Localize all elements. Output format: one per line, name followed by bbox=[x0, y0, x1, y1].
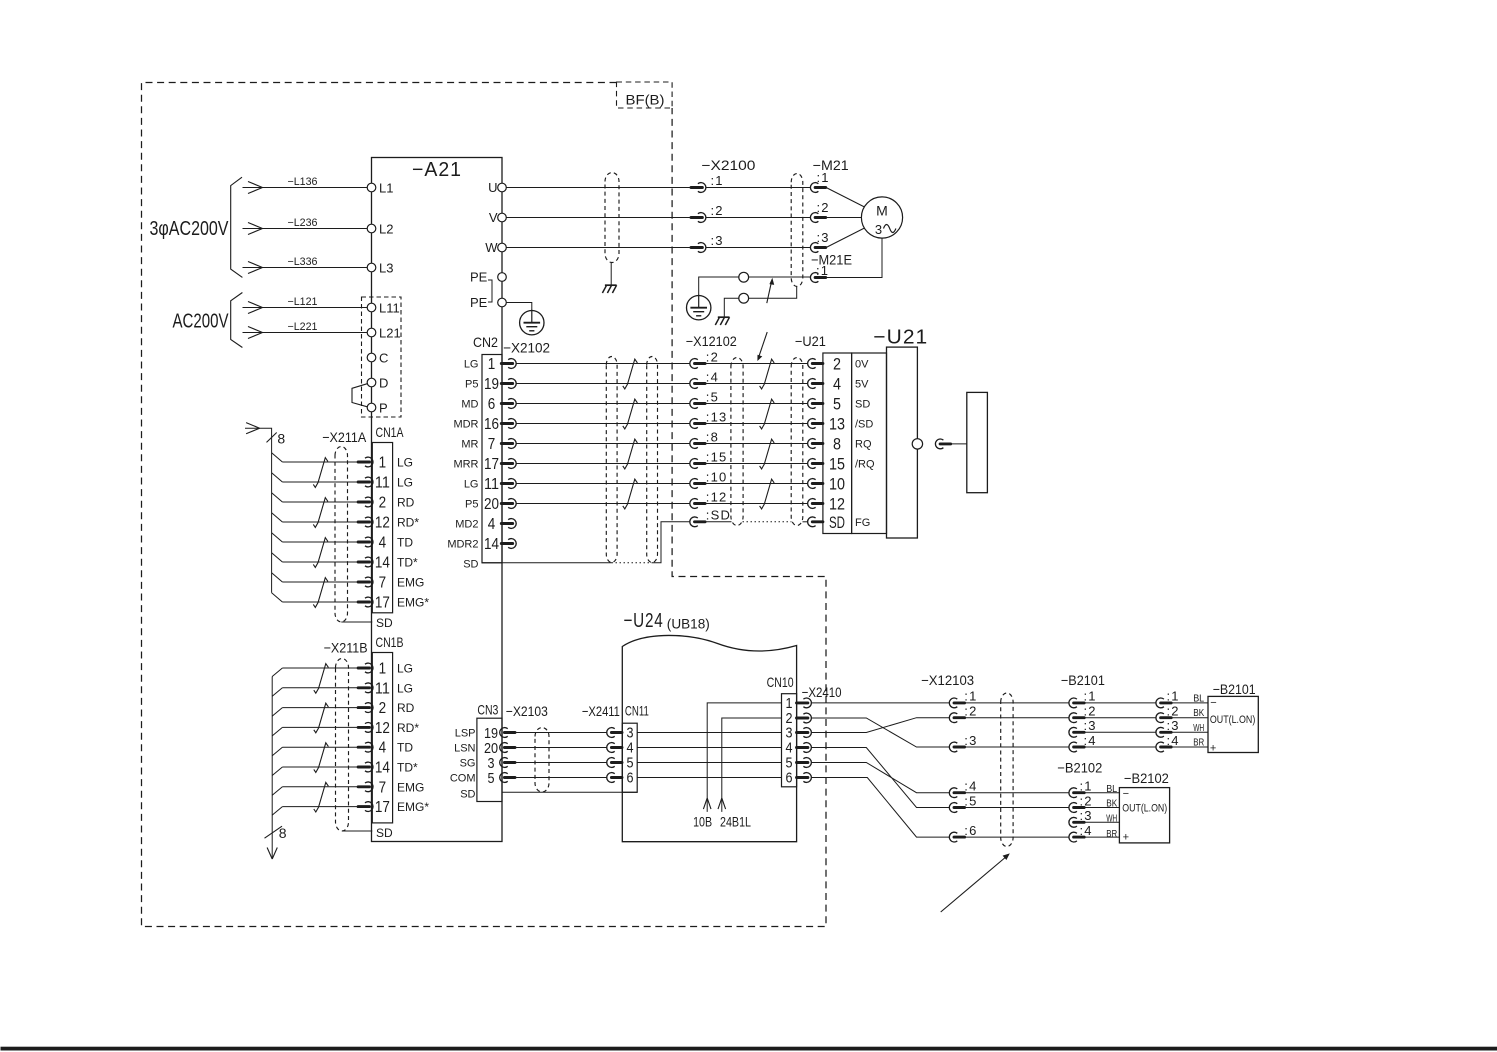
wire B2101 :1 bbox=[1085, 702, 1157, 704]
bus size 8 marker bbox=[267, 433, 277, 443]
wire CN1B row 6 bbox=[282, 766, 358, 768]
svg-text:MDR: MDR bbox=[453, 419, 478, 431]
svg-text:0V: 0V bbox=[855, 359, 869, 371]
bracket 3phase bbox=[231, 177, 243, 277]
wire B2101 :3 bbox=[1085, 731, 1157, 733]
connector B2101 cable pin :4 bbox=[1069, 742, 1077, 752]
svg-text:OUT(L.ON): OUT(L.ON) bbox=[1210, 714, 1255, 726]
svg-text::12: :12 bbox=[706, 489, 728, 504]
connector X12102 pin :8 bbox=[690, 439, 698, 449]
wire M21 pin2 to motor bbox=[826, 217, 861, 219]
svg-text:2: 2 bbox=[379, 495, 387, 512]
svg-text::2: :2 bbox=[1167, 704, 1180, 719]
net 10B feed bbox=[707, 703, 781, 812]
svg-text::1: :1 bbox=[1080, 779, 1093, 794]
svg-text:EMG: EMG bbox=[397, 780, 424, 794]
wire CN1B row 5 bbox=[282, 746, 358, 748]
svg-text:OUT(L.ON): OUT(L.ON) bbox=[1122, 803, 1167, 815]
connector X2411 pin bbox=[607, 773, 615, 783]
connector X12103 pin :6 bbox=[949, 832, 957, 842]
shield pointer arrow bbox=[767, 281, 772, 303]
servo amplifier A21 outline bbox=[372, 158, 503, 842]
svg-text:20: 20 bbox=[484, 496, 499, 513]
terminal PE bbox=[498, 298, 507, 307]
wire B2102 :1 bbox=[1085, 792, 1120, 794]
svg-text:LG: LG bbox=[397, 456, 413, 470]
svg-text::2: :2 bbox=[706, 349, 719, 364]
svg-text:12: 12 bbox=[829, 495, 845, 514]
svg-text:8: 8 bbox=[277, 430, 285, 446]
svg-text:14: 14 bbox=[484, 536, 499, 553]
connector B2102 cable pin :1 bbox=[1069, 788, 1077, 798]
svg-text:12: 12 bbox=[375, 515, 390, 532]
svg-text:−X12102: −X12102 bbox=[686, 333, 737, 349]
protective earth symbol (motor side) bbox=[687, 296, 711, 320]
wire −L236 supply input bbox=[243, 228, 368, 230]
svg-text:SD: SD bbox=[376, 616, 393, 630]
svg-text:TD: TD bbox=[397, 536, 413, 550]
connector B2101 unit pin :1 bbox=[1156, 698, 1164, 708]
svg-text::3: :3 bbox=[1084, 718, 1097, 733]
svg-text::3: :3 bbox=[1080, 808, 1093, 823]
svg-text:CN1B: CN1B bbox=[376, 634, 404, 650]
wire X12102 :8 to U21 bbox=[705, 443, 808, 445]
svg-text:6: 6 bbox=[488, 396, 496, 413]
wire chassis ground to cable shield bbox=[724, 287, 796, 317]
svg-text:MD2: MD2 bbox=[455, 519, 478, 531]
svg-text:11: 11 bbox=[375, 680, 390, 697]
svg-text:RD*: RD* bbox=[397, 721, 419, 735]
svg-text:−A21: −A21 bbox=[412, 159, 462, 181]
wire CN1A row 4 bbox=[282, 521, 358, 523]
wire CN10-1 to X12103-1 bbox=[811, 702, 950, 704]
svg-text:24B1L: 24B1L bbox=[720, 813, 751, 829]
svg-text::6: :6 bbox=[964, 823, 977, 838]
svg-text::13: :13 bbox=[706, 409, 728, 424]
svg-text::8: :8 bbox=[706, 429, 719, 444]
svg-text::SD: :SD bbox=[706, 508, 731, 523]
wire X12103 :3 onward bbox=[965, 746, 1069, 748]
svg-text:LG: LG bbox=[397, 476, 413, 490]
wire CN1B row 1 bbox=[282, 667, 358, 669]
CN1A harness bus bbox=[245, 428, 272, 593]
connector M21 pin :1 bbox=[810, 183, 818, 193]
svg-text:5V: 5V bbox=[855, 379, 869, 391]
svg-text::1: :1 bbox=[1167, 689, 1180, 704]
wire CN1B row 3 bbox=[282, 707, 358, 709]
motor cable shield (screen) left bbox=[605, 173, 619, 263]
svg-text:EMG*: EMG* bbox=[397, 800, 429, 814]
svg-text::1: :1 bbox=[711, 173, 724, 188]
svg-text:12: 12 bbox=[375, 720, 390, 737]
svg-text:−L236: −L236 bbox=[288, 217, 318, 229]
wire CN10-4 to X12103-5 bbox=[811, 748, 950, 808]
connector B2101 cable pin :3 bbox=[1069, 727, 1077, 737]
wire X12102 :13 to U21 bbox=[705, 423, 808, 425]
svg-text:D: D bbox=[379, 376, 388, 391]
svg-text:U: U bbox=[488, 180, 497, 195]
svg-text:LG: LG bbox=[464, 479, 479, 491]
wire phase :2 A21 to X2100 bbox=[506, 217, 691, 219]
wire X12102 :12 to U21 bbox=[705, 503, 808, 505]
terminal D bbox=[367, 378, 376, 387]
svg-text:−L336: −L336 bbox=[288, 256, 318, 268]
U21 pin SD FG bbox=[808, 517, 816, 527]
net 24B1L feed bbox=[722, 718, 782, 812]
svg-text:15: 15 bbox=[829, 455, 845, 474]
connector X12103 pin :2 bbox=[949, 713, 957, 723]
svg-text::5: :5 bbox=[706, 389, 719, 404]
svg-text:−X2411: −X2411 bbox=[582, 703, 620, 719]
svg-text:17: 17 bbox=[484, 456, 499, 473]
svg-text:8: 8 bbox=[833, 435, 841, 454]
terminal U bbox=[498, 183, 507, 192]
U21 pin 13 /SD bbox=[808, 419, 816, 429]
dashed enclosure boundary BF(B) bbox=[142, 83, 827, 927]
connector B2102 cable pin :2 bbox=[1069, 803, 1077, 813]
cable shield X211B bbox=[336, 659, 349, 832]
connector B2101 unit pin :4 bbox=[1156, 742, 1164, 752]
svg-text:BK: BK bbox=[1193, 708, 1204, 719]
svg-text:+: + bbox=[1210, 742, 1216, 754]
wire B2102 :4 bbox=[1085, 836, 1120, 838]
svg-text:−L121: −L121 bbox=[288, 296, 318, 308]
connector M21 pin :2 bbox=[810, 213, 818, 223]
wire to encoder connector bbox=[951, 443, 967, 445]
wire X12103 :1 onward bbox=[965, 702, 1069, 704]
wire CN11 to CN10 row 3 bbox=[637, 732, 781, 734]
svg-text:−L221: −L221 bbox=[288, 321, 318, 333]
svg-text::1: :1 bbox=[817, 170, 830, 185]
wire CN10-2 to X12103-3 bbox=[811, 718, 950, 747]
wire X12102 :5 to U21 bbox=[705, 403, 808, 405]
terminal L2 bbox=[367, 224, 376, 233]
cable shield ovals X12102-U21 bbox=[731, 358, 743, 526]
svg-text:−: − bbox=[1123, 788, 1129, 800]
svg-text:MR: MR bbox=[461, 439, 478, 451]
svg-text:BL: BL bbox=[1193, 693, 1204, 704]
svg-text:EMG: EMG bbox=[397, 576, 424, 590]
motor M21 3-phase bbox=[861, 197, 902, 238]
SD drain X211B bbox=[342, 830, 372, 832]
wire phase :3 A21 to X2100 bbox=[506, 247, 691, 249]
wire PE to protective earth bbox=[506, 303, 532, 312]
cable shield X12103 bbox=[1001, 693, 1013, 847]
svg-text:−: − bbox=[1210, 697, 1216, 709]
connector pin at U21 output bbox=[935, 439, 943, 449]
wire phase :1 A21 to X2100 bbox=[506, 187, 691, 189]
svg-text:8: 8 bbox=[279, 825, 287, 841]
wire −L221 supply input bbox=[243, 332, 368, 334]
SD drain X211A bbox=[341, 621, 372, 623]
svg-text:LSP: LSP bbox=[455, 728, 476, 740]
wire CN11 to CN10 row 4 bbox=[637, 747, 781, 749]
svg-text::3: :3 bbox=[817, 230, 830, 245]
U21 pin 15 /RQ bbox=[808, 459, 816, 469]
wire CN3 to X2411 row 19 bbox=[515, 732, 607, 734]
svg-text:C: C bbox=[379, 351, 388, 366]
svg-text::2: :2 bbox=[1080, 793, 1093, 808]
svg-text:−U21: −U21 bbox=[795, 333, 826, 349]
wire X12103 :2 onward bbox=[965, 717, 1069, 719]
wire B2102 :3 bbox=[1085, 821, 1120, 823]
svg-text:LG: LG bbox=[397, 662, 413, 676]
svg-text:RQ: RQ bbox=[855, 439, 872, 451]
svg-text:3φAC200V: 3φAC200V bbox=[150, 218, 230, 240]
wire B2101 :2 bbox=[1085, 717, 1157, 719]
twisted pair marks CN2 cable bbox=[623, 359, 638, 389]
connector M21 pin :3 bbox=[810, 243, 818, 253]
svg-text:17: 17 bbox=[375, 595, 390, 612]
terminal P bbox=[367, 403, 376, 412]
SD drain X12102 to U21 bbox=[705, 521, 731, 523]
svg-text:7: 7 bbox=[488, 436, 496, 453]
svg-text:7: 7 bbox=[379, 779, 387, 796]
connector CN10 box bbox=[782, 694, 797, 787]
svg-text::5: :5 bbox=[964, 793, 977, 808]
svg-text:−X2100: −X2100 bbox=[701, 157, 755, 173]
svg-text:BR: BR bbox=[1106, 829, 1117, 840]
terminal V bbox=[498, 213, 507, 222]
wire −L136 supply input bbox=[243, 187, 368, 189]
svg-text:SD: SD bbox=[855, 399, 870, 411]
cable shield X2103 bbox=[535, 728, 549, 793]
connector X12102 pin :2 bbox=[690, 359, 698, 369]
svg-text:TD: TD bbox=[397, 741, 413, 755]
svg-text:P5: P5 bbox=[465, 499, 478, 511]
wire CN2 11 to X12102 bbox=[516, 483, 690, 485]
connector B2101 cable pin :1 bbox=[1069, 698, 1077, 708]
svg-text:13: 13 bbox=[829, 415, 845, 434]
svg-text::4: :4 bbox=[964, 779, 977, 794]
svg-text:BK: BK bbox=[1106, 798, 1117, 809]
U21 body bbox=[887, 347, 918, 538]
svg-text::4: :4 bbox=[1080, 823, 1093, 838]
connector X12102 pin :SD bbox=[690, 517, 698, 527]
svg-text:P: P bbox=[379, 401, 388, 416]
svg-text:RD: RD bbox=[397, 701, 415, 715]
unit B2101 box bbox=[1208, 696, 1258, 752]
D-P jumper link bbox=[352, 384, 367, 407]
svg-text:BL: BL bbox=[1106, 784, 1117, 795]
chassis ground (shield side) bbox=[718, 316, 730, 318]
svg-text:19: 19 bbox=[484, 376, 499, 393]
svg-text:W: W bbox=[485, 240, 498, 255]
svg-text:−X2102: −X2102 bbox=[503, 339, 550, 355]
wire X12102 :10 to U21 bbox=[705, 483, 808, 485]
bracket AC200V bbox=[231, 293, 243, 348]
connector CN1B box bbox=[372, 653, 392, 823]
svg-text:4: 4 bbox=[379, 535, 387, 552]
wire X12102 :15 to U21 bbox=[705, 463, 808, 465]
cable shield ovals CN2-X12102 bbox=[606, 357, 617, 563]
svg-text:1: 1 bbox=[488, 356, 496, 373]
wire phase :1 X2100 to M21 bbox=[706, 187, 811, 189]
connector X2411 pin bbox=[607, 728, 615, 738]
svg-text:SD: SD bbox=[463, 559, 478, 571]
wire CN2 17 to X12102 bbox=[516, 463, 690, 465]
wire M21 pin1 to motor bbox=[826, 188, 864, 208]
wire phase :2 X2100 to M21 bbox=[706, 217, 811, 219]
svg-text::10: :10 bbox=[706, 469, 728, 484]
svg-text::2: :2 bbox=[1084, 704, 1097, 719]
terminal L1 bbox=[367, 183, 376, 192]
connector B2101 unit pin :3 bbox=[1156, 727, 1164, 737]
U21 pin 5 SD bbox=[808, 399, 816, 409]
wire X12102 :2 to U21 bbox=[705, 363, 808, 365]
U21 pin 4 5V bbox=[808, 379, 816, 389]
U21 pin 2 0V bbox=[808, 359, 816, 369]
U21 pin box bbox=[823, 353, 852, 534]
shield SD route CN2 to X12102 bbox=[482, 562, 612, 564]
wire phase :3 X2100 to M21 bbox=[706, 247, 811, 249]
connector X12103 pin :3 bbox=[949, 742, 957, 752]
unit U24 outline (wavy top) bbox=[622, 635, 796, 841]
PE terminal bracket bbox=[488, 280, 492, 302]
svg-text:TD*: TD* bbox=[397, 556, 418, 570]
svg-text:RD: RD bbox=[397, 496, 415, 510]
connector CN11 box bbox=[622, 723, 637, 792]
connector B2102 cable pin :3 bbox=[1069, 817, 1077, 827]
wire −L336 supply input bbox=[243, 267, 368, 269]
wire CN1A row 7 bbox=[282, 581, 358, 583]
unit B2102 box bbox=[1119, 788, 1169, 843]
terminal L3 bbox=[367, 263, 376, 272]
svg-text:PE: PE bbox=[470, 270, 488, 285]
svg-text:−X12103: −X12103 bbox=[921, 672, 974, 688]
connector M21E pin :1 bbox=[810, 273, 818, 283]
svg-text:−B2101: −B2101 bbox=[1213, 681, 1256, 697]
svg-text:CN11: CN11 bbox=[625, 703, 649, 719]
chassis ground (motor cable) bbox=[605, 284, 617, 286]
svg-text:10B: 10B bbox=[693, 813, 712, 829]
svg-text:6: 6 bbox=[627, 770, 634, 787]
connector X2100 pin :3 bbox=[698, 243, 706, 253]
wire CN2 6 to X12102 bbox=[516, 403, 690, 405]
wire CN10-6 to X12103-6 bbox=[811, 778, 950, 838]
connector CN1A box bbox=[372, 443, 392, 613]
protective earth symbol (A21) bbox=[520, 311, 544, 335]
wire CN1A row 3 bbox=[282, 501, 358, 503]
svg-text:BF(B): BF(B) bbox=[626, 92, 665, 108]
wire X12103 :6 onward bbox=[965, 836, 1069, 838]
svg-text:6: 6 bbox=[786, 770, 793, 787]
svg-text:11: 11 bbox=[484, 476, 499, 493]
connector X12102 pin :13 bbox=[690, 419, 698, 429]
shield pointer arrow X12102 bbox=[759, 332, 767, 357]
svg-text::4: :4 bbox=[1167, 733, 1180, 748]
svg-text::2: :2 bbox=[711, 203, 724, 218]
svg-text:SD: SD bbox=[829, 513, 845, 532]
svg-text:L2: L2 bbox=[379, 222, 393, 237]
wire CN1A row 1 bbox=[282, 461, 358, 463]
wire CN1A row 6 bbox=[282, 561, 358, 563]
svg-text:−B2102: −B2102 bbox=[1124, 770, 1169, 786]
wire CN1A row 8 bbox=[282, 601, 358, 603]
wire CN10-3 to X12103-2 bbox=[811, 718, 950, 733]
svg-text:5: 5 bbox=[833, 395, 841, 414]
svg-text:MDR2: MDR2 bbox=[447, 539, 478, 551]
connector X12102 pin :10 bbox=[690, 479, 698, 489]
connector X12103 pin :5 bbox=[949, 803, 957, 813]
connector B2102 cable pin :4 bbox=[1069, 832, 1077, 842]
wire CN2 1 to X12102 bbox=[516, 363, 690, 365]
connector X2411 pin bbox=[607, 758, 615, 768]
svg-text:CN10: CN10 bbox=[767, 674, 794, 690]
wire X12103 :5 onward bbox=[965, 807, 1069, 809]
svg-text::15: :15 bbox=[706, 449, 728, 464]
twisted pair marks X12102 cable bbox=[760, 359, 775, 389]
svg-text::3: :3 bbox=[711, 233, 724, 248]
connector CN3 box bbox=[477, 718, 502, 801]
dashed box around L11..P terminals bbox=[362, 297, 402, 417]
svg-text:EMG*: EMG* bbox=[397, 596, 429, 610]
svg-text:4: 4 bbox=[833, 375, 841, 394]
svg-text:−X211A: −X211A bbox=[322, 429, 367, 445]
bus size 8 marker bbox=[265, 826, 283, 838]
wire −L121 supply input bbox=[243, 307, 368, 309]
terminal L11 bbox=[367, 303, 376, 312]
wire CN1A row 5 bbox=[282, 541, 358, 543]
svg-text:L3: L3 bbox=[379, 261, 393, 276]
svg-text:L21: L21 bbox=[379, 326, 401, 341]
svg-text:1: 1 bbox=[379, 455, 387, 472]
svg-text:11: 11 bbox=[375, 475, 390, 492]
motor cable shield (screen) right bbox=[791, 174, 803, 287]
svg-text:CN1A: CN1A bbox=[376, 424, 404, 440]
wire CN1B row 4 bbox=[282, 726, 358, 728]
wire CN1B row 2 bbox=[282, 687, 358, 689]
svg-text:14: 14 bbox=[375, 555, 390, 572]
svg-text:−U24: −U24 bbox=[624, 610, 664, 632]
SD line CN3 to CN11 bbox=[502, 791, 637, 793]
svg-text:SD: SD bbox=[460, 789, 475, 801]
connector X2100 pin :2 bbox=[698, 213, 706, 223]
terminal PE bbox=[498, 273, 507, 282]
wire CN11 to CN10 row 5 bbox=[637, 762, 781, 764]
svg-text:BR: BR bbox=[1193, 738, 1204, 749]
svg-text:−U21: −U21 bbox=[873, 327, 928, 349]
svg-text::3: :3 bbox=[964, 733, 977, 748]
wire M21 pin3 to motor bbox=[826, 228, 864, 248]
svg-text:WH: WH bbox=[1106, 814, 1117, 825]
svg-text:−X2103: −X2103 bbox=[506, 703, 548, 719]
svg-text:TD*: TD* bbox=[397, 761, 418, 775]
shield drain to chassis ground bbox=[610, 263, 612, 286]
terminal W bbox=[498, 243, 507, 252]
svg-text:2: 2 bbox=[833, 355, 841, 374]
BF(B) label box bbox=[617, 82, 673, 108]
svg-text:V: V bbox=[489, 210, 498, 225]
connector X12102 pin :5 bbox=[690, 399, 698, 409]
svg-text:17: 17 bbox=[375, 799, 390, 816]
wire CN1B row 7 bbox=[282, 786, 358, 788]
svg-text:7: 7 bbox=[379, 575, 387, 592]
svg-text:WH: WH bbox=[1193, 723, 1204, 734]
encoder connector block bbox=[967, 392, 988, 492]
wire CN11 to CN10 row 6 bbox=[637, 777, 781, 779]
wire CN1A row 2 bbox=[282, 481, 358, 483]
wire X12103 :4 onward bbox=[965, 792, 1069, 794]
svg-text:−X211B: −X211B bbox=[324, 639, 368, 655]
svg-text:CN2: CN2 bbox=[473, 334, 498, 350]
svg-text:1: 1 bbox=[379, 661, 387, 678]
connector X12102 pin :12 bbox=[690, 499, 698, 509]
svg-text::4: :4 bbox=[1084, 733, 1097, 748]
wire motor frame to M21E bbox=[826, 238, 882, 277]
svg-text:MRR: MRR bbox=[453, 459, 478, 471]
connector B2101 cable pin :2 bbox=[1069, 713, 1077, 723]
